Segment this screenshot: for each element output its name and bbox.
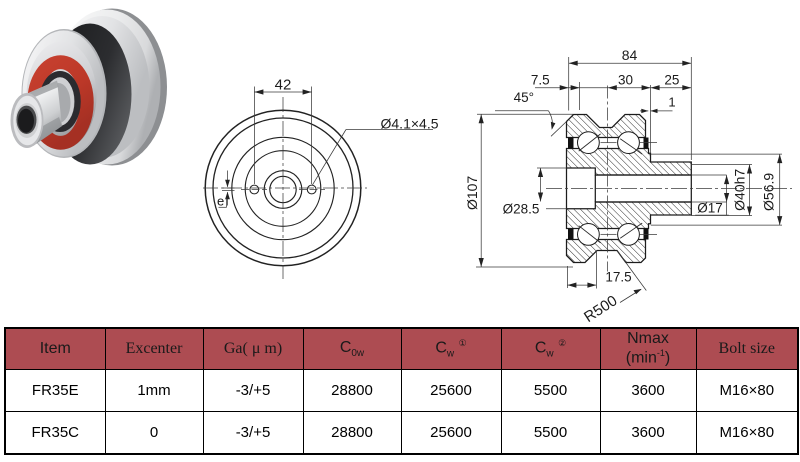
svg-text:Ø56.9: Ø56.9: [760, 173, 776, 211]
groove vertical centerline: [607, 86, 609, 272]
dims group: [476, 57, 782, 303]
bushing tip: [11, 93, 44, 148]
front flange rim: [22, 29, 107, 158]
front view outer circle Ø107: [205, 110, 361, 266]
left face line across bore: [566, 168, 568, 209]
bushing cylinder body: [22, 81, 63, 147]
bearing balls: [578, 132, 600, 154]
dim chain line 7.5 / 30 / 25: [535, 87, 691, 89]
svg-text:Ø40h7: Ø40h7: [732, 169, 748, 211]
bolt hole centerline left: [241, 189, 267, 191]
wheel lower section (hatched): [567, 240, 646, 263]
dim Ø40h7: [691, 164, 752, 166]
svg-text:R500: R500: [581, 292, 620, 326]
svg-text:42: 42: [275, 77, 292, 94]
svg-text:1: 1: [668, 95, 675, 110]
table FR35E/FR35C specifications: [4, 327, 799, 455]
inner metal rings: [44, 78, 74, 126]
front view bore circle Ø17: [270, 176, 296, 202]
section view group: [464, 47, 792, 326]
45 degree leader: [495, 110, 549, 112]
svg-text:7.5: 7.5: [531, 73, 550, 88]
front view vertical centerline: [282, 97, 284, 279]
red seal ring: [34, 62, 87, 143]
svg-text:17.5: 17.5: [605, 269, 631, 284]
svg-text:45°: 45°: [514, 90, 534, 105]
clipped remark line below table: [302, 459, 719, 462]
dimension 42 line: [254, 91, 311, 93]
dim texts: [464, 47, 776, 326]
eccentricity e annotation: [227, 171, 229, 187]
bearing row centerline dashes: [601, 142, 617, 144]
front view boss circle Ø28.5: [264, 171, 302, 209]
front view bolt hole left: [250, 185, 259, 194]
R500 leader: [617, 251, 646, 291]
wheel upper section (hatched): [567, 115, 646, 138]
bore hole: [17, 106, 37, 134]
dim 17.5: [566, 266, 568, 288]
front view groove rim circle: [213, 118, 353, 258]
photo of V-groove bearing: [11, 9, 168, 166]
front view bolt hole right: [307, 185, 316, 194]
svg-text:Ø28.5: Ø28.5: [503, 202, 540, 217]
dim Ø56.9: [651, 153, 782, 155]
svg-text:e: e: [217, 194, 224, 209]
dim 1: [640, 110, 648, 112]
dim Ø28.5: [537, 167, 567, 169]
svg-text:Ø107: Ø107: [464, 176, 480, 210]
svg-text:30: 30: [618, 73, 633, 88]
bearing seal blocks: [568, 138, 574, 149]
hub face across bore: [690, 175, 692, 202]
dark inner ring: [42, 74, 77, 129]
front view flange circle: [232, 137, 334, 239]
front view group: [203, 77, 439, 280]
front view shoulder circle Ø56.9: [245, 151, 321, 227]
ball contact lines: [579, 134, 601, 151]
groove dark band: [49, 24, 132, 165]
stud lower section (hatched): [567, 202, 692, 229]
chamfer extension line: [551, 122, 567, 137]
dim 84: [569, 62, 692, 64]
rear disc back edge: [57, 9, 167, 166]
dim Ø17: [691, 174, 726, 176]
dimension 42 extension lines: [253, 87, 255, 185]
ext line hub face: [650, 85, 652, 153]
svg-text:25: 25: [664, 73, 679, 88]
bore Ø17 lines: [595, 174, 691, 176]
dim Ø107: [480, 114, 482, 267]
bolt hole centerline right: [299, 189, 325, 191]
svg-text:84: 84: [622, 47, 638, 63]
front view horizontal centerline: [203, 187, 367, 189]
main horizontal centerline: [546, 187, 792, 189]
rear disc face: [54, 10, 161, 165]
stud upper section (hatched): [567, 149, 692, 176]
bore step line across: [594, 175, 596, 202]
front flange face: [27, 42, 97, 150]
svg-text:Ø17: Ø17: [697, 201, 723, 216]
